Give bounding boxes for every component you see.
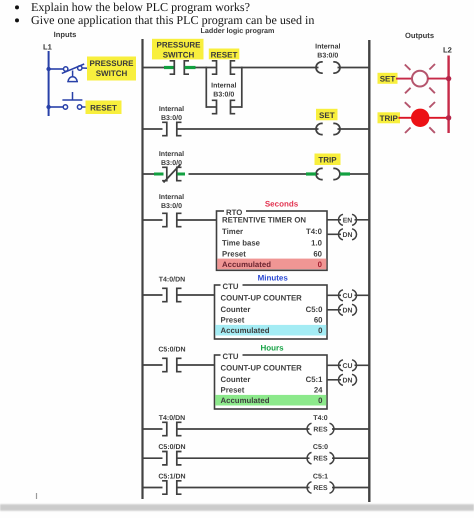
svg-text:SWITCH: SWITCH [96, 69, 128, 78]
wire rung5 left [143, 294, 163, 296]
svg-text:Hours: Hours [260, 344, 284, 353]
contact NO C5:0/DN (rung8) [162, 452, 181, 465]
reset coil RES C5:1 [307, 482, 334, 494]
label RESET (input) [86, 101, 122, 115]
svg-text:C5:0: C5:0 [313, 444, 328, 451]
svg-text:B3:0/0: B3:0/0 [161, 114, 182, 122]
branch vertical right [241, 67, 243, 108]
contact NO RESET [212, 61, 235, 74]
svg-text:Preset: Preset [222, 250, 246, 259]
svg-text:C5:0/DN: C5:0/DN [158, 346, 185, 354]
label Internal B3:0/0 (rung4 contact) [159, 193, 184, 210]
svg-text:60: 60 [313, 250, 322, 259]
power rail L1 [48, 51, 50, 116]
wire SET lamp to rail [428, 78, 449, 80]
svg-text:RESET: RESET [90, 104, 117, 113]
wire branch right [231, 106, 242, 108]
wire L1 to pressure switch [49, 68, 64, 70]
svg-text:Seconds: Seconds [265, 200, 299, 209]
svg-text:TRIP: TRIP [318, 156, 337, 165]
node junction L1-reset [46, 105, 50, 109]
svg-text:Ladder logic program: Ladder logic program [201, 26, 275, 35]
wire rung9 to RES [177, 487, 310, 489]
wire rung1 RESET to coil [231, 67, 319, 69]
contact NO Internal B3:0/0 (rung2) [162, 122, 181, 135]
label SET (coil) [316, 109, 338, 121]
wire green stub right of TRIP coil [340, 172, 350, 175]
svg-text:C5:1/DN: C5:1/DN [158, 473, 185, 481]
wire CU2 to rail [355, 364, 370, 366]
svg-text:Accumulated: Accumulated [221, 396, 270, 405]
svg-text:C5:0: C5:0 [306, 305, 324, 314]
wire rung1 green stub right of PS contact [185, 66, 196, 69]
wire CU to rail [355, 294, 370, 296]
wire CTU1 DN stub [327, 309, 341, 311]
svg-text:60: 60 [314, 316, 323, 325]
svg-text:Accumulated: Accumulated [221, 326, 270, 335]
coil TRIP [316, 168, 340, 179]
svg-text:CTU: CTU [223, 282, 239, 291]
wire rung5 to CTU box [177, 294, 215, 296]
rays around TRIP lamp [405, 102, 435, 133]
svg-text:L2: L2 [443, 46, 452, 55]
svg-text:Internal: Internal [159, 105, 184, 113]
svg-text:B3:0/0: B3:0/0 [317, 52, 338, 60]
svg-text:RES: RES [313, 485, 328, 492]
svg-text:T4:0/DN: T4:0/DN [159, 414, 185, 422]
wire rung1 left [143, 67, 170, 69]
wire rung9 RES to rail [332, 487, 369, 489]
svg-text:CU: CU [343, 293, 353, 300]
svg-text:DN: DN [343, 377, 353, 384]
label Internal B3:0/0 (rung3 contact) [159, 150, 184, 167]
svg-text:0: 0 [318, 396, 323, 405]
label Internal B3:0/0 (rung1 coil) [315, 43, 340, 60]
lamp SET (off, open circle) [412, 71, 428, 87]
wire rung3 left [143, 173, 163, 175]
wire rung3 green stub right [177, 173, 185, 176]
wire L1 to reset button [49, 106, 64, 108]
svg-text:Preset: Preset [221, 316, 245, 325]
wire RTO DN stub [327, 233, 341, 235]
scan artifact: bottom gray band [0, 504, 474, 511]
wire rung8 to RES [177, 457, 310, 459]
bullet 1 [15, 0, 250, 14]
rays around SET lamp [405, 64, 435, 93]
svg-text:RES: RES [313, 456, 328, 463]
svg-text:24: 24 [314, 386, 323, 395]
svg-text:C5:1: C5:1 [306, 375, 324, 384]
lamp TRIP (on, filled red) [412, 109, 429, 126]
ladder right rail [368, 40, 370, 502]
svg-text:Time base: Time base [222, 239, 261, 248]
svg-text:DN: DN [343, 232, 353, 239]
wire SET label to lamp [396, 78, 412, 80]
wire rung4 to RTO box [177, 219, 217, 221]
wire rung8 left [143, 457, 163, 459]
wire rung8 RES to rail [332, 457, 369, 459]
wire EN to rail [355, 219, 370, 221]
wire rung1 green stub left of PS contact [164, 66, 174, 69]
wire rung7 to RES [177, 428, 310, 430]
wire CTU2 DN stub [327, 379, 341, 381]
wire rung3 green stub left [154, 173, 164, 176]
svg-text:Counter: Counter [221, 305, 251, 314]
counter CTU C5:1 block [215, 351, 328, 410]
bullet 2 [15, 13, 314, 27]
wire rung4 left [143, 219, 163, 221]
contact NO Internal B3:0/0 (seal-in branch) [212, 100, 235, 113]
power rail L2 [447, 56, 449, 134]
svg-text:Accumulated: Accumulated [222, 260, 271, 269]
contact NO PRESSURE SWITCH [170, 61, 189, 74]
svg-text:C5:0/DN: C5:0/DN [158, 443, 185, 451]
label TRIP (output) [378, 112, 401, 123]
svg-text:CTU: CTU [223, 352, 239, 361]
wire rung1 PS to RESET [196, 67, 217, 69]
output flag CU (CTU C5:0) [338, 290, 356, 301]
svg-text:PRESSURE: PRESSURE [156, 40, 201, 49]
output flag DN (CTU C5:0) [338, 304, 356, 315]
svg-text:Internal: Internal [159, 193, 184, 201]
label RESET (rung) [209, 49, 240, 60]
wire green stub left of TRIP coil [306, 172, 316, 175]
svg-text:T4:0: T4:0 [313, 415, 328, 422]
wire TRIP label to lamp [399, 117, 413, 119]
svg-text:Internal: Internal [315, 43, 340, 51]
svg-text:Counter: Counter [221, 375, 251, 384]
wire RTO EN to symbol [327, 219, 341, 221]
svg-text:SWITCH: SWITCH [163, 50, 195, 59]
reset coil RES T4:0 [307, 423, 334, 435]
reset pushbutton PB1 symbol [62, 92, 86, 109]
svg-text:Timer: Timer [222, 227, 243, 236]
svg-text:Give one application that this: Give one application that this PLC progr… [31, 13, 314, 27]
node junction SET-L2 [446, 76, 451, 81]
output flag EN (RTO) [338, 214, 356, 225]
svg-text:B3:0/0: B3:0/0 [161, 202, 182, 210]
wire rung6 left [143, 364, 163, 366]
node junction L1-pressure [46, 67, 50, 71]
svg-text:T4:0/DN: T4:0/DN [159, 275, 185, 283]
svg-text:Internal: Internal [211, 82, 236, 90]
svg-text:COUNT-UP COUNTER: COUNT-UP COUNTER [221, 364, 303, 373]
svg-text:C5:1: C5:1 [313, 474, 328, 481]
output flag DN (CTU C5:1) [338, 374, 356, 385]
svg-text:Preset: Preset [221, 386, 245, 395]
scan artifact: small tick mark [36, 493, 38, 499]
svg-text:T4:0: T4:0 [306, 227, 323, 236]
contact NO C5:0/DN [162, 358, 181, 371]
wire rung2 to coil [177, 128, 319, 130]
timer RTO T4:0 block [217, 207, 328, 271]
wire rung7 left [143, 428, 163, 430]
svg-text:0: 0 [318, 326, 323, 335]
label Internal B3:0/0 (rung2 contact) [159, 105, 184, 122]
svg-text:EN: EN [343, 217, 353, 224]
svg-text:DN: DN [343, 307, 353, 314]
output flag CU (CTU C5:1) [338, 360, 356, 371]
contact NC Internal B3:0/0 [162, 165, 181, 183]
svg-text:TRIP: TRIP [380, 114, 399, 123]
svg-text:Explain how the below PLC prog: Explain how the below PLC program works? [31, 0, 250, 14]
counter CTU C5:0 block [215, 281, 328, 340]
node junction TRIP-L2 [446, 115, 451, 120]
svg-text:RETENTIVE TIMER ON: RETENTIVE TIMER ON [222, 216, 306, 225]
svg-text:1.0: 1.0 [311, 239, 323, 248]
label TRIP (coil) [315, 154, 341, 166]
wire rung3 to coil [189, 173, 319, 175]
svg-text:Outputs: Outputs [405, 31, 434, 40]
label Internal B3:0/0 (branch contact) [211, 82, 236, 99]
wire rung6 to CTU box [177, 364, 215, 366]
coil SET [316, 123, 340, 134]
wire rung9 left [143, 487, 163, 489]
contact NO T4:0/DN [162, 288, 181, 301]
svg-text:Inputs: Inputs [54, 30, 77, 39]
contact NO C5:1/DN (rung9) [162, 481, 181, 494]
svg-text:SET: SET [319, 111, 335, 120]
svg-text:RESET: RESET [211, 50, 238, 59]
svg-text:SET: SET [380, 75, 396, 84]
wire rung2 left [143, 128, 163, 130]
contact NO Internal B3:0/0 (rung4) [162, 213, 181, 226]
svg-text:COUNT-UP COUNTER: COUNT-UP COUNTER [221, 294, 303, 303]
branch vertical left [205, 67, 207, 108]
wire CTU2 CU to symbol [327, 364, 341, 366]
svg-text:Minutes: Minutes [258, 274, 289, 283]
svg-text:RES: RES [313, 427, 328, 434]
wire rung3 coil to rail [350, 173, 369, 175]
svg-text:PRESSURE: PRESSURE [89, 59, 134, 68]
label PRESSURE SWITCH (input) [87, 57, 136, 81]
wire branch left [206, 106, 216, 108]
contact NO T4:0/DN (rung7) [162, 422, 181, 435]
pressure switch PS1 symbol [62, 64, 88, 82]
svg-text:0: 0 [318, 260, 323, 269]
wire TRIP lamp to rail [429, 117, 449, 119]
wire rung2 coil to rail [338, 128, 370, 130]
svg-text:L1: L1 [43, 43, 53, 52]
wire CTU1 CU to symbol [327, 294, 341, 296]
wire rung7 RES to rail [332, 428, 369, 430]
ladder left rail [141, 39, 143, 499]
svg-text:B3:0/0: B3:0/0 [213, 91, 234, 99]
svg-text:Internal: Internal [159, 150, 184, 158]
label PRESSURE SWITCH (rung) [152, 39, 204, 60]
output flag DN (RTO) [338, 229, 356, 240]
svg-text:CU: CU [343, 363, 353, 370]
wire rung1 coil to rail [338, 67, 370, 69]
coil Internal B3:0/0 [316, 62, 340, 73]
label SET (output) [378, 73, 398, 84]
reset coil RES C5:0 [307, 452, 334, 464]
